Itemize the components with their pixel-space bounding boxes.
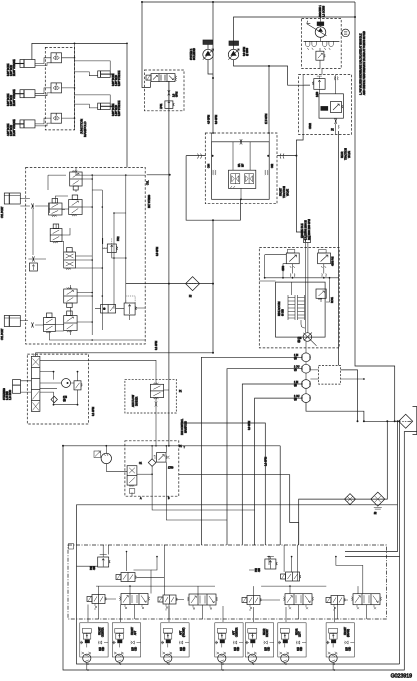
wire bank cluster links: [96, 557, 367, 619]
orifice rear: [335, 119, 337, 124]
piston cups right: [322, 41, 333, 50]
small gauge left of fan motor: [94, 451, 101, 458]
steering control unit stack: [31, 354, 40, 412]
wire cylinder ports: [21, 381, 32, 392]
motor box FTV: [229, 170, 256, 188]
svg-text:CR02: CR02: [310, 122, 312, 129]
wire left supply drop to LP01: [142, 2, 150, 88]
svg-text:AND ORIFICE PERFORMANCE VALUES: AND ORIFICE PERFORMANCE VALUES AT POINTS…: [363, 31, 366, 95]
piston cups left: [306, 41, 317, 50]
wire P1 to solenoid: [207, 44, 209, 49]
wire LP01 pilot line long drop: [168, 81, 170, 446]
wire FTV bottom return: [186, 156, 240, 353]
lever arrow: [307, 21, 327, 36]
svg-text:4350: 4350: [283, 265, 285, 271]
wire main pump pressure line: [212, 2, 214, 133]
shuttle valve J2: [51, 83, 62, 93]
svg-text:1 IN: 1 IN: [294, 382, 299, 384]
steering gerotor: [62, 379, 71, 388]
orifice FD: [155, 401, 157, 406]
junction manifold dashed box: [45, 47, 74, 129]
svg-text:SOLENOID: SOLENOID: [194, 48, 196, 60]
solenoid valve SV01: [116, 573, 137, 582]
svg-text:AUX FLOW: AUX FLOW: [132, 394, 135, 407]
svg-text:1T50: 1T50: [168, 468, 174, 470]
solenoid block P2: [229, 41, 239, 45]
svg-text:MANIFOLD: MANIFOLD: [83, 121, 87, 137]
coupler 3: [302, 380, 311, 389]
svg-text:1 IN: 1 IN: [294, 355, 299, 357]
svg-text:3.5 GPM: 3.5 GPM: [157, 247, 159, 256]
filter F2 mid: [186, 277, 200, 291]
compensator valve: [316, 51, 325, 60]
cylinder tilt left: [4, 193, 20, 204]
valve A3: [49, 199, 62, 217]
svg-text:2.48 IN3: 2.48 IN3: [7, 391, 9, 400]
svg-text:(FRONT): (FRONT): [184, 627, 186, 637]
wire big left enclosure: [63, 432, 417, 670]
bank pair 1: [87, 595, 106, 611]
svg-text:8.0 GPM: 8.0 GPM: [244, 47, 246, 56]
wire PR2 connections: [103, 238, 126, 258]
valve LP01 3-pos: [146, 74, 177, 82]
wire boxlet stubs: [310, 370, 364, 379]
wire J-valves to bus: [62, 58, 75, 118]
wire cyl1 to J1: [35, 58, 51, 66]
motor group 5: [245, 623, 273, 663]
wire cyl3 to J3: [35, 118, 51, 126]
svg-text:FRONT: FRONT: [345, 626, 347, 635]
motor element 1: [231, 174, 240, 184]
svg-text:RC01: RC01: [332, 296, 334, 303]
wire VF port: [137, 473, 152, 475]
ride bus: [265, 277, 339, 279]
svg-text:VALVE: VALVE: [287, 188, 290, 196]
svg-text:AFT: AFT: [180, 630, 183, 635]
svg-text:PSI: PSI: [256, 568, 258, 572]
wire manifold bus: [74, 43, 76, 129]
svg-text:AFT: AFT: [233, 630, 236, 635]
svg-text:REAR: REAR: [341, 151, 344, 158]
svg-text:24.00" STROKE: 24.00" STROKE: [14, 119, 16, 136]
svg-text:8.0 GPM: 8.0 GPM: [216, 115, 218, 124]
svg-text:8.00" STROKE: 8.00" STROKE: [119, 100, 121, 116]
svg-text:PSI: PSI: [91, 566, 93, 570]
motor group 2: [112, 623, 140, 663]
wire bank feeds: [108, 545, 110, 555]
wire tank to filter: [409, 420, 412, 422]
solenoid block main pump: [317, 22, 324, 26]
svg-text:28.00" STROKE: 28.00" STROKE: [14, 59, 16, 76]
bank valve 2: [187, 594, 217, 610]
svg-text:CYL PORT: CYL PORT: [2, 328, 4, 340]
valve A7: [44, 313, 56, 333]
svg-text:MF: MF: [243, 163, 245, 167]
wire A2 connections: [55, 179, 92, 209]
svg-text:1.50" ROD: 1.50" ROD: [116, 105, 118, 116]
svg-text:3.00" BORE: 3.00" BORE: [113, 103, 115, 116]
wire pump2 to top bus: [234, 17, 356, 49]
svg-text:1 OU: 1 OU: [294, 367, 300, 369]
orifice LP01: [168, 90, 170, 95]
wire motor drain arrows: [230, 186, 235, 189]
hose fitting right: [280, 154, 284, 159]
wire bus to right cyl 2: [75, 95, 111, 108]
wire boxlet to right main: [341, 370, 358, 421]
solenoid block P1: [203, 40, 213, 44]
svg-text:CYL: CYL: [148, 180, 150, 185]
svg-text:(3): (3): [298, 341, 301, 343]
relief RC1: [286, 250, 299, 269]
bank valve 3: [283, 594, 313, 610]
wire top main bus: [142, 1, 355, 3]
svg-text:TRACTION: TRACTION: [345, 148, 348, 160]
svg-text:3.1 GPM: 3.1 GPM: [93, 407, 95, 416]
wire coupler column: [305, 362, 307, 394]
svg-text:RIDE ACCUM: RIDE ACCUM: [278, 301, 281, 316]
wire FD internals: [156, 390, 169, 446]
filter F3: [399, 414, 413, 428]
svg-text:C04: C04: [209, 163, 211, 168]
motor group 4: [215, 623, 243, 663]
wire cyl tilt port: [20, 199, 48, 207]
wire A top bus: [48, 172, 145, 190]
cylinder loader lift RH: [14, 90, 35, 98]
svg-text:28.00" STROKE: 28.00" STROKE: [14, 89, 16, 106]
relief LP01: [165, 101, 175, 109]
wire pump box internals: [320, 17, 322, 75]
svg-text:(3): (3): [294, 358, 297, 360]
motor group 1: [80, 623, 108, 663]
wire rear traction drain: [338, 131, 340, 366]
svg-text:FRONT: FRONT: [100, 626, 102, 635]
coupler 1: [302, 353, 311, 362]
svg-text:1.1 GC535: 1.1 GC535: [324, 5, 326, 17]
wires ride box: [259, 255, 329, 328]
svg-text:3.1 GPM: 3.1 GPM: [156, 341, 158, 350]
svg-text:STEERING: STEERING: [4, 388, 6, 400]
hose fitting left: [198, 154, 202, 159]
check diamond fan: [148, 459, 156, 467]
aux flow divider dashed box: [125, 379, 176, 413]
gauge G1: [342, 29, 350, 37]
svg-text:5.00" BORE: 5.00" BORE: [8, 63, 10, 76]
relief RC2: [318, 250, 331, 269]
svg-text:1.1 GPM: 1.1 GPM: [266, 457, 268, 466]
solenoid valve bottom right A: [101, 305, 116, 314]
steering cylinder: [13, 380, 21, 394]
bottom bank dashed box: [68, 545, 386, 619]
svg-text:MANIFOLD: MANIFOLD: [185, 421, 188, 433]
spring marks top right: [334, 77, 338, 81]
tank symbol: [413, 407, 417, 435]
svg-text:DIVIDER: DIVIDER: [137, 396, 139, 406]
svg-text:(3): (3): [63, 400, 66, 402]
wire LP01 internals: [168, 81, 170, 101]
svg-text:FRONT: FRONT: [281, 187, 283, 196]
svg-text:17.5 GPM: 17.5 GPM: [266, 114, 268, 124]
pump P1 (system 1): [203, 49, 214, 60]
T1 plug box: [304, 236, 311, 243]
wire bank to motors verticals: [88, 605, 334, 623]
fan valve VF vertical: [127, 466, 137, 494]
svg-text:7.5, 2T500 2600 IN: 7.5, 2T500 2600 IN: [306, 220, 308, 240]
orifice A1: [31, 203, 33, 208]
FTV inner solid box: [212, 142, 270, 200]
svg-text:(3): (3): [294, 370, 297, 372]
valve rear traction: [331, 102, 343, 113]
svg-text:TRACTION: TRACTION: [283, 186, 286, 198]
wire coupler 2 line: [227, 369, 302, 545]
svg-text:@ 2300: @ 2300: [247, 47, 249, 56]
wire bus A-1: [91, 175, 93, 335]
svg-text:3.0 GPM: 3.0 GPM: [249, 421, 251, 430]
FTV dashed box: [205, 133, 277, 204]
wire coupler bottom to tank filter: [306, 403, 400, 422]
spring below orifice: [338, 125, 339, 129]
wire motor bottom drops: [87, 662, 333, 670]
bank valve 4: [351, 594, 381, 610]
cylinder right aux 2: [98, 103, 115, 110]
wire FTV right: [277, 155, 296, 157]
wire return drop right A: [345, 421, 398, 551]
wire cyl2 to J2: [35, 88, 51, 96]
svg-text:BKT STRNG: BKT STRNG: [149, 195, 151, 208]
svg-text:(3): (3): [294, 399, 297, 401]
coupler 2: [302, 364, 311, 373]
relief PR04: [265, 557, 278, 570]
wire right main line: [355, 2, 395, 421]
svg-text:SYSTEM 1: SYSTEM 1: [191, 48, 193, 60]
valve A6: [64, 287, 77, 307]
bank pair 2: [158, 595, 177, 611]
ride small valve: [316, 289, 326, 300]
dot FTV ports: [211, 155, 269, 201]
wire fan box internals: [132, 446, 255, 520]
svg-text:RG, 2800 I200 GPM: RG, 2800 I200 GPM: [309, 219, 311, 240]
wire rear box internals: [303, 75, 336, 135]
svg-text:8.00" STROKE: 8.00" STROKE: [119, 70, 121, 86]
wire PR03 left: [77, 565, 98, 567]
steering dashed box: [27, 354, 88, 424]
wire coupler 1 line: [201, 357, 301, 545]
wire top-left cylinder bus: [32, 43, 127, 167]
wire coupler 4 line: [255, 398, 302, 545]
check diamond left: [28, 256, 38, 271]
wire pilot to fan manifold: [63, 446, 280, 545]
wire bank row1 links: [103, 545, 297, 595]
strainer S1: [345, 494, 356, 505]
pump main circle: [315, 27, 326, 38]
solenoid dark box: [321, 106, 329, 111]
shuttle valve J1: [51, 53, 62, 63]
accumulator coil 1: [288, 295, 295, 320]
rear traction dashed box: [299, 75, 352, 135]
spring left port: [213, 170, 217, 175]
svg-text:FRONT: FRONT: [267, 628, 269, 637]
ride inner solid box: [276, 282, 326, 337]
LP01 dashed box: [144, 70, 184, 111]
motor group 7: [326, 623, 354, 663]
motor group 6: [278, 623, 306, 663]
wire return drop right B: [345, 421, 400, 664]
svg-text:CYL PORT: CYL PORT: [2, 206, 4, 218]
fan control manifold dashed box: [125, 441, 179, 496]
shuttle valve J3: [51, 113, 62, 123]
strainer S2: [371, 492, 385, 509]
svg-text:LP01: LP01: [161, 103, 163, 109]
svg-text:1.24 ROD: 1.24 ROD: [10, 389, 12, 400]
steering diamond: [51, 396, 57, 402]
solenoid valve SV02: [281, 572, 302, 581]
valve A1 (top): [70, 170, 82, 190]
wire A4 connections: [56, 224, 102, 268]
svg-text:ENGINE IDLE: ENGINE IDLE: [302, 223, 304, 238]
svg-text:PR2: PR2: [118, 236, 120, 241]
wire main to steering box: [36, 353, 213, 357]
relief PR03: [98, 555, 111, 568]
accumulator coil 2: [298, 295, 305, 320]
svg-text:AFT: AFT: [134, 630, 137, 635]
svg-text:REAR: REAR: [263, 628, 266, 635]
svg-text:MA: MA: [238, 163, 241, 167]
svg-text:G023919: G023919: [391, 674, 412, 680]
relief CR02: [312, 76, 325, 89]
aux boxlet dashed: [319, 366, 341, 385]
svg-text:2.00" ROD: 2.00" ROD: [11, 95, 13, 106]
svg-text:1 OU: 1 OU: [294, 396, 300, 398]
riser pair through box: [306, 243, 308, 353]
wire suction strainer line: [299, 421, 388, 545]
svg-text:4.00" BORE: 4.00" BORE: [8, 123, 10, 136]
motor element 2: [245, 174, 254, 184]
bank pair 4: [326, 596, 345, 612]
svg-text:LEFT: LEFT: [300, 631, 302, 637]
svg-text:2.00" ROD: 2.00" ROD: [11, 125, 13, 136]
cylinder loader lift LH: [14, 60, 35, 68]
svg-text:4.5 GPM: 4.5 GPM: [209, 115, 211, 124]
spring RC2: [322, 273, 327, 276]
flow divider valve FD1: [150, 383, 163, 399]
wire rear traction drop to ride control: [296, 134, 306, 236]
cylinder loader tilt: [14, 120, 35, 128]
relief PR2: [103, 244, 118, 253]
wire FTV left to loader valve: [147, 156, 206, 175]
valve A8: [64, 311, 77, 332]
svg-text:3.00" BORE: 3.00" BORE: [113, 73, 115, 86]
orifice A2: [31, 322, 33, 327]
wire A6 connections: [70, 285, 92, 322]
rear inner solid box: [319, 94, 343, 118]
wire fan manifold out 2: [179, 475, 299, 545]
wire bus to right cyl 1: [75, 61, 111, 76]
orifice FTV top: [240, 139, 242, 144]
steering wires right of stack: [40, 360, 156, 404]
wire bus A-4: [125, 175, 127, 303]
ride solenoid valve circle: [303, 333, 316, 346]
coupler 4: [302, 394, 311, 403]
wire coupler 3 line: [242, 384, 301, 545]
pump P2 (system 2): [228, 49, 239, 60]
svg-text:GPM: GPM: [177, 92, 179, 97]
svg-text:30GC535 1: 30GC535 1: [320, 5, 322, 17]
spring right port: [265, 170, 269, 175]
ride control dashed box: [259, 248, 339, 348]
svg-text:5.00" BORE: 5.00" BORE: [8, 93, 10, 106]
svg-text:CENTER: CENTER: [103, 627, 105, 637]
svg-text:VALVE: VALVE: [348, 150, 351, 158]
cylinder right aux 1: [98, 71, 115, 78]
wire bus A-3: [113, 213, 115, 305]
svg-text:(REAR): (REAR): [347, 629, 350, 637]
plug TS box: [69, 544, 74, 550]
relief PR05: [154, 453, 170, 463]
swash plate line: [304, 40, 340, 42]
valve A5 shuttle: [64, 248, 76, 270]
wire bus A-2: [101, 190, 103, 330]
wire FTV verticals: [212, 133, 270, 199]
wire filter F2 line: [126, 283, 213, 285]
svg-text:(3): (3): [294, 385, 297, 387]
wire pump2 outlet to FTV right: [234, 60, 311, 133]
fan motor: [99, 451, 112, 464]
wire sol valve A connections: [95, 308, 145, 320]
svg-text:C02: C02: [272, 163, 274, 168]
valve A2: [69, 195, 82, 216]
svg-text:FAN CONTROL: FAN CONTROL: [181, 418, 184, 435]
main pump dashed box: [302, 19, 342, 69]
cylinder lower left: [4, 316, 20, 327]
valve A4: [50, 224, 62, 243]
wire fan manifold top out: [183, 423, 265, 545]
svg-text:REAR: REAR: [296, 628, 299, 635]
svg-text:4350 PSI: 4350 PSI: [333, 256, 335, 266]
svg-text:CENTER: CENTER: [237, 627, 239, 637]
wire A7 connections: [20, 321, 92, 341]
relief PR1: [124, 303, 137, 315]
steering valve: [74, 381, 82, 390]
bank pair 3: [242, 596, 261, 612]
loader valve dashed box: [26, 167, 146, 344]
bank valve 1: [119, 594, 149, 610]
motor group 3: [161, 623, 189, 663]
svg-text:60 IN3: 60 IN3: [283, 309, 285, 316]
wire A extra connections: [33, 168, 145, 340]
spring RC1: [290, 273, 295, 276]
wire inner bottom enclosure: [77, 505, 400, 664]
pilot dash A: [102, 238, 135, 303]
wire fan motor feed: [106, 446, 127, 472]
svg-text:2.00" ROD: 2.00" ROD: [11, 65, 13, 76]
wire pump1 outlet: [208, 60, 213, 74]
junction dots box A: [32, 174, 126, 323]
svg-text:1.50" ROD: 1.50" ROD: [116, 75, 118, 86]
svg-text:1. PSI VALUES SHOWN ARE CALCUL: 1. PSI VALUES SHOWN ARE CALCULATED AT HI…: [360, 33, 363, 95]
svg-text:FRONT: FRONT: [132, 626, 134, 635]
